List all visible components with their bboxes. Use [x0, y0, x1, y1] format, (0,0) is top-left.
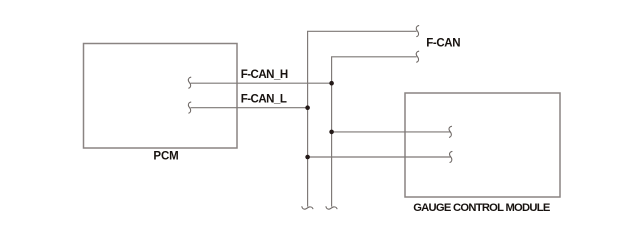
wire bus 1 to gauge control module (lower) [308, 156, 451, 158]
PCM module box [84, 44, 238, 149]
GAUGE CONTROL MODULE box [405, 93, 560, 197]
junction dot: gauge upper wire on bus 2 [329, 130, 334, 135]
wire bus 1 (F-CAN_L bus: top stub to F-CAN connector + vertical run) [308, 31, 417, 206]
junction dot: gauge lower wire on bus 1 [305, 155, 310, 160]
svg-text:F-CAN: F-CAN [426, 38, 460, 50]
svg-text:GAUGE CONTROL MODULE: GAUGE CONTROL MODULE [413, 202, 551, 214]
connector break at bottom of bus 1 [302, 207, 313, 209]
connector break at bottom of bus 2 [326, 207, 337, 209]
junction dot: F-CAN_H on bus 2 [329, 81, 334, 86]
connector break at PCM pin F-CAN_L [188, 102, 190, 113]
wire bus 2 to gauge control module (upper) [332, 131, 450, 133]
connector break at top of bus 2 [416, 51, 418, 62]
junction dot: F-CAN_L on bus 1 [305, 105, 310, 110]
svg-text:PCM: PCM [153, 150, 178, 162]
connector break at gauge control module lower pin [450, 151, 452, 162]
wire bus 2 (F-CAN_H bus: top stub to F-CAN connector + vertical run) [332, 57, 417, 207]
svg-text:F-CAN_L: F-CAN_L [241, 94, 287, 106]
connector break at PCM pin F-CAN_H [188, 77, 190, 88]
connector break at top of bus 1 [416, 26, 418, 37]
wire F-CAN_H (PCM to bus 2) [191, 82, 332, 84]
svg-text:F-CAN_H: F-CAN_H [241, 69, 288, 81]
connector break at gauge control module upper pin [449, 126, 451, 137]
wire F-CAN_L (PCM to bus 1) [191, 107, 308, 109]
